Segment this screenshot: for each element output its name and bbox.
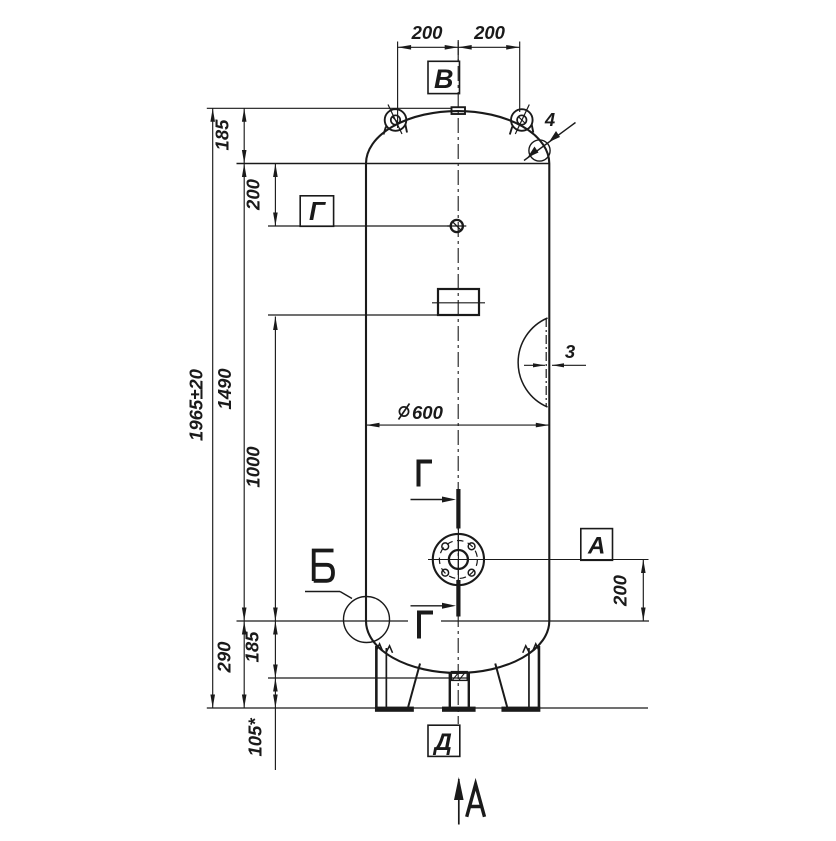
dim text 1000 (243, 446, 264, 488)
svg-text:185: 185 (212, 119, 233, 151)
flange horizontal centerline (428, 559, 649, 561)
dim text diameter 600 (399, 402, 444, 423)
vessel shell right wall (548, 164, 550, 622)
top elliptical head (366, 111, 549, 163)
svg-text:Г: Г (309, 196, 326, 226)
svg-text:200: 200 (411, 22, 444, 43)
dim text 105* (245, 718, 266, 757)
top circumferential weld line (237, 163, 550, 165)
bottom elliptical head (366, 621, 549, 673)
flange vertical centerline (457, 529, 459, 585)
extension line coupling level (268, 314, 438, 316)
extension line top of vessel (207, 107, 452, 109)
inner wall line (545, 318, 547, 407)
top dim extension lines (398, 42, 520, 129)
flange bolt circle (439, 541, 477, 579)
view box G (300, 196, 333, 227)
side nozzle G circle (447, 220, 466, 232)
svg-text:600: 600 (412, 402, 444, 423)
support leg left (375, 644, 420, 712)
top dim text 200 right (473, 22, 506, 43)
flange outer circle (433, 534, 484, 585)
detail B leader (305, 592, 352, 599)
dim line 200 top part (273, 164, 278, 227)
extension line G nozzle level (268, 225, 451, 227)
section letter G bottom (419, 613, 433, 639)
dim line diameter 600 (366, 423, 549, 428)
svg-text:4: 4 (544, 109, 555, 130)
view direction arrow A (454, 777, 485, 825)
vessel shell left wall (365, 164, 367, 622)
right dim 200 (610, 560, 646, 622)
view box D (428, 725, 460, 756)
flange inner circle (449, 550, 468, 569)
svg-text:Д: Д (433, 729, 452, 756)
top dim text 200 left (411, 22, 444, 43)
dim text 1490 (214, 368, 235, 410)
top nozzle B (452, 107, 466, 114)
dim text 1965±20 (186, 368, 207, 441)
svg-text:В: В (434, 64, 454, 94)
weld number 4 label (544, 109, 555, 130)
weld leader arrow 4 (524, 123, 576, 161)
lifting lug left (384, 105, 408, 135)
dim text 185 top (212, 119, 233, 151)
drain coupling hatch (451, 672, 467, 681)
view box A (581, 529, 613, 561)
svg-text:105*: 105* (245, 718, 266, 757)
detail B circle (344, 597, 390, 643)
wall thickness dim 3 (524, 341, 586, 367)
bottom tangent line with gap for letter (237, 620, 650, 622)
drain pipe walls (450, 673, 469, 707)
dim text 200 left (243, 178, 264, 211)
section letter G top (419, 462, 433, 487)
top dim line (398, 45, 520, 50)
svg-text:1490: 1490 (214, 368, 235, 410)
extension line drain level (268, 677, 469, 679)
support leg right (495, 644, 540, 712)
section line top bar (456, 489, 460, 529)
dim line 1000-185-105 (273, 317, 278, 771)
vertical centerline of vessel (457, 40, 459, 724)
flange bolt holes (442, 543, 475, 576)
weld detail circle 4 (529, 140, 550, 161)
svg-text:200: 200 (473, 22, 506, 43)
section line bottom bar (456, 580, 460, 617)
view box B (428, 61, 460, 94)
svg-text:200: 200 (610, 574, 631, 607)
dim text 185 bottom (242, 631, 263, 663)
svg-text:1965±20: 1965±20 (186, 368, 207, 441)
drain foot plate (442, 707, 476, 712)
svg-text:290: 290 (214, 641, 235, 674)
section arrow top (411, 497, 457, 503)
ground line (207, 707, 648, 709)
lifting lug right (510, 105, 534, 135)
svg-text:3: 3 (565, 341, 576, 362)
dim line 1965 (210, 108, 215, 708)
svg-text:200: 200 (243, 178, 264, 211)
svg-text:185: 185 (242, 631, 263, 663)
svg-text:1000: 1000 (243, 446, 264, 488)
dim line 185-1490-290 (242, 108, 247, 708)
local section break arc (518, 318, 547, 407)
svg-text:А: А (587, 533, 605, 560)
dim text 290 (214, 641, 235, 674)
detail B letter (314, 551, 334, 582)
side coupling boss (432, 289, 485, 315)
section arrow bottom (411, 603, 457, 609)
